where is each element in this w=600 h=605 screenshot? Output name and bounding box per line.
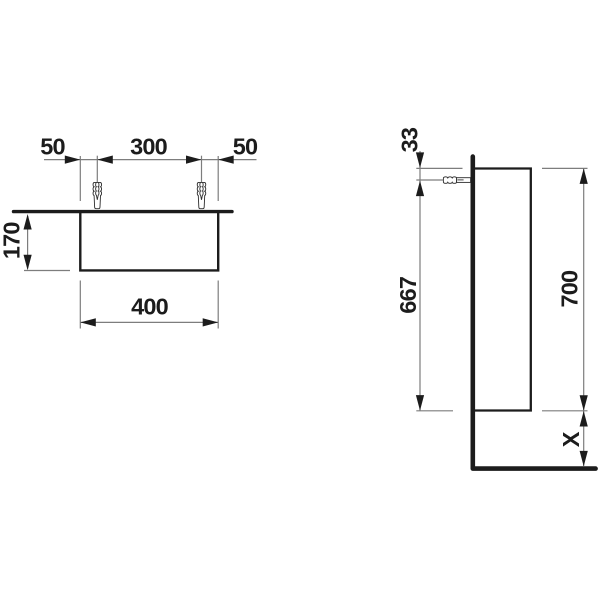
- dim 170: vertical line: [27, 216, 29, 269]
- wire: extension line below right box edge: [217, 281, 219, 329]
- screw anchor 2 (front): [197, 182, 206, 208]
- wire: extension line cabinet bottom (left side): [416, 410, 453, 412]
- wire: X dimension line: [583, 411, 585, 466]
- wire: 400 dimension line: [80, 321, 218, 323]
- svg-text:300: 300: [130, 134, 168, 160]
- wall + floor thick L: [473, 157, 596, 469]
- wire: extension line cabinet top (right side): [542, 167, 588, 169]
- arrow: 300 right pointing right: [186, 156, 202, 164]
- screw anchor (side view): [443, 177, 470, 184]
- arrow: 400 left pointing left: [80, 318, 96, 326]
- cabinet box (side view): [475, 169, 531, 411]
- wire: extension line cabinet top (left side): [416, 167, 462, 169]
- arrow: 33 pointing down: [416, 152, 424, 168]
- svg-text:700: 700: [557, 270, 583, 308]
- arrow: 300 left pointing left: [97, 156, 113, 164]
- wire: extension line right box edge: [217, 156, 219, 201]
- wire: extension line below left box edge: [79, 281, 81, 329]
- wire: extension line screw 2: [201, 156, 203, 182]
- arrow: 667 bottom pointing down: [416, 395, 424, 411]
- arrow: 50-left pointing right: [65, 156, 81, 164]
- screw anchor 1 (front): [93, 182, 102, 208]
- svg-text:X: X: [558, 431, 584, 447]
- dim 33 + 667 vertical line: [419, 151, 421, 411]
- wire: extension line left box edge: [79, 156, 81, 201]
- arrow: 700 bottom pointing down: [580, 395, 588, 411]
- wire: extension line cabinet bottom (right side): [542, 410, 588, 412]
- wire: screw axis line: [416, 179, 443, 181]
- right dimension lines (700 / X): [542, 168, 588, 466]
- arrow: 170 bottom pointing down: [24, 255, 32, 270]
- arrow: 667 top pointing up: [416, 181, 424, 197]
- svg-text:33: 33: [396, 127, 422, 152]
- wire: 700 dimension line: [583, 168, 585, 410]
- cabinet box (front view): [80, 213, 218, 270]
- arrow: 170 top pointing up: [24, 214, 32, 230]
- svg-text:170: 170: [0, 222, 24, 260]
- svg-text:50: 50: [40, 134, 65, 160]
- svg-text:667: 667: [395, 276, 421, 314]
- wire: extension line screw 1: [96, 156, 98, 182]
- arrow: X top pointing up: [580, 411, 588, 427]
- arrow: 700 top pointing up: [580, 168, 588, 184]
- panel: countertop thick line: [14, 210, 233, 213]
- svg-text:50: 50: [233, 134, 258, 160]
- dim 400: [80, 281, 218, 329]
- arrow: 50-right pointing left: [218, 156, 234, 164]
- arrow: X bottom pointing down: [580, 451, 588, 467]
- wire: extension line at box bottom (for 170): [24, 270, 70, 272]
- wire: top dimension line (50/300/50): [44, 156, 257, 201]
- svg-text:400: 400: [131, 294, 169, 320]
- arrow: 400 right pointing right: [203, 318, 219, 326]
